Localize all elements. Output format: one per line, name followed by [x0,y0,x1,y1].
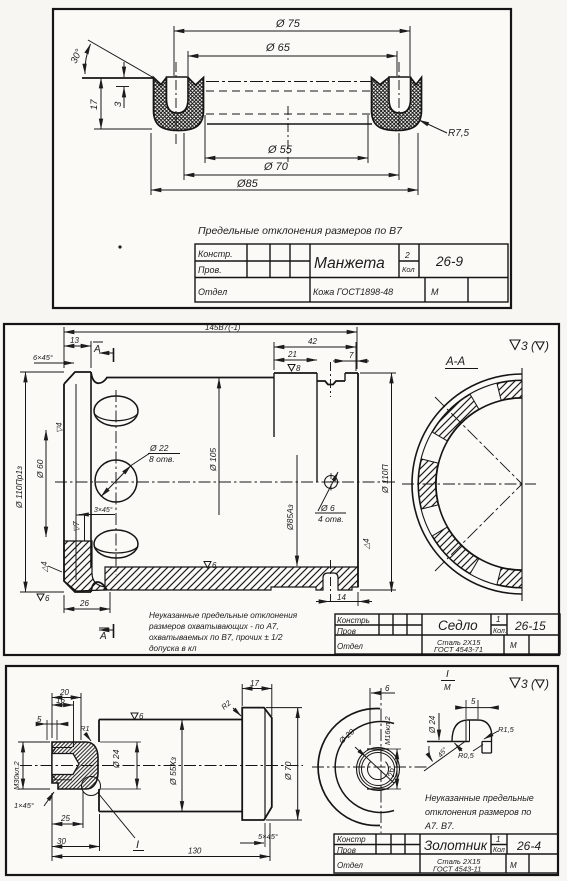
bottom web line between lips [207,123,372,125]
flats chords 26 [367,749,389,789]
svg-text:Ø 110П: Ø 110П [380,463,390,494]
svg-text:17: 17 [250,679,259,688]
seal left inner slot [167,77,189,113]
flange outline [242,708,272,820]
dim 13 [64,345,91,347]
svg-text:А7. В7.: А7. В7. [424,821,455,831]
42 extensions [274,342,356,371]
svg-text:Ø 60: Ø 60 [35,459,45,479]
head section body (hatched) [52,742,98,789]
inner bore dash-dot line [206,81,372,83]
A-A diagonal centerline upper [435,397,522,484]
svg-text:Ø 75: Ø 75 [275,18,301,30]
shaft outline [99,720,242,812]
label R1,5 [484,725,515,739]
svg-text:△4: △4 [362,538,371,550]
145 extension right [356,327,358,369]
thread chamfer marks [52,748,56,780]
svg-text:R1: R1 [80,724,90,733]
svg-text:26: 26 [79,599,89,608]
dim 42 [274,346,356,348]
svg-text:Предельные отклонения размеров: Предельные отклонения размеров по В7 [198,225,403,237]
svg-text:26-9: 26-9 [435,254,464,269]
svg-text:Ø 55: Ø 55 [267,144,293,156]
A-A horizontal centerline [402,483,536,485]
svg-text:А: А [99,631,107,642]
svg-text:14: 14 [337,593,346,602]
dim 5 head [36,715,68,740]
D85 extension lines [151,133,418,195]
section mark A top [93,342,114,362]
dim 30 [52,846,100,848]
dim 5 detail [456,697,498,719]
dim 26 [64,608,110,610]
svg-text:6: 6 [45,594,50,603]
svg-text:Ø 22: Ø 22 [149,443,169,453]
D65 extension lines [188,51,397,76]
svg-text:2: 2 [404,250,410,260]
label A-A [445,356,478,369]
svg-text:4 отв.: 4 отв. [318,514,344,524]
17 extensions [242,684,272,716]
svg-text:1×45°: 1×45° [14,801,34,810]
label I main [133,839,144,851]
dim 16 [52,704,74,706]
dim line D65 [188,55,397,57]
svg-text:R7,5: R7,5 [448,128,470,139]
detail 45 arc arrow [429,746,433,762]
detail leader [98,793,135,838]
stray dot [118,245,121,248]
svg-text:21: 21 [287,350,297,359]
centerline right U [398,62,400,146]
hole ellipse top inner arc [95,414,138,421]
panel 2 frame [4,324,559,655]
dim 25 [52,823,83,825]
title block 1 frame [195,244,508,302]
section A-A inner arc [436,398,522,570]
dim line D75 [174,30,410,32]
svg-text:А-А: А-А [445,356,466,368]
svg-text:25: 25 [60,814,70,823]
part axis centerline p3 [20,765,303,767]
end view outer arc D70 [318,709,380,826]
svg-text:1: 1 [496,615,500,624]
dim D70 [297,708,299,820]
svg-text:I: I [136,839,139,851]
title block 3 texts [337,835,541,874]
end view circle r21.5 [357,748,400,791]
mark tri4 wedge [40,561,62,573]
dim D55X3 [181,720,183,812]
svg-text:Констр.: Констр. [198,249,233,259]
svg-text:Золотник: Золотник [424,838,488,853]
groove centerline top [330,362,332,397]
dim 6 end view [370,684,395,745]
finish marks V3 panel3 [510,677,549,691]
dim D85A3 [296,455,298,566]
detail view base line [427,741,470,743]
bore step lines 3x45 [76,515,85,541]
dim M30kl2 [22,742,24,789]
panel 1 frame [53,9,511,308]
svg-text:17: 17 [89,99,100,110]
svg-text:R1,5: R1,5 [498,725,515,734]
svg-text:М: М [510,861,517,870]
svg-text:размеров охватывающих - по А7: размеров охватывающих - по А7, [148,622,279,631]
A-A diagonal centerline lower [435,484,522,571]
collar edge x317 [316,373,318,482]
svg-text:8: 8 [296,364,301,373]
mark V6 shaft [131,712,144,721]
part axis centerline [55,481,396,483]
main outline top profile [64,372,358,385]
dim line D55 [205,157,368,159]
svg-text:Ø 24: Ø 24 [111,749,121,769]
left face and bottom chamfer [64,384,107,592]
title block 2 texts [337,615,546,654]
svg-text:7: 7 [349,351,354,360]
svg-text:Кол: Кол [493,847,505,854]
surface mark V6 on band [204,561,217,570]
panel 3 frame [6,666,558,875]
section A-A second arc [418,380,522,588]
detail label I/M [441,669,455,692]
dim 26 end view [387,749,401,789]
svg-text:М: М [431,287,439,297]
svg-text:Пров: Пров [337,627,356,636]
svg-text:ГОСТ 4543-71: ГОСТ 4543-71 [434,645,483,654]
svg-text:Ø 24: Ø 24 [428,715,437,734]
D110P extensions [360,373,396,590]
svg-text:Отдел: Отдел [198,287,227,297]
svg-text:допуска в кл: допуска в кл [149,644,197,653]
svg-text:охватываемых по В7, прочих ±: охватываемых по В7, прочих ± 1/2 [149,633,283,642]
hole column centerline [115,390,117,575]
13 extension [64,327,91,368]
svg-text:▽7: ▽7 [72,521,81,532]
svg-text:М: М [444,683,451,692]
seal right inner slot [389,77,411,113]
svg-text:Отдел: Отдел [337,861,363,870]
svg-text:5: 5 [471,697,476,706]
D70 extensions [266,708,302,820]
svg-text:Кол.: Кол. [493,628,507,635]
svg-text:Отдел: Отдел [337,642,363,651]
svg-text:Седло: Седло [438,618,478,633]
title block 2 frame [335,614,560,654]
svg-text:Ø 70: Ø 70 [283,761,293,781]
section hatch: flange wedge bottom-left [64,541,105,591]
leader R7.5 [419,120,447,133]
svg-text:ГОСТ 4543-11: ГОСТ 4543-11 [433,865,481,874]
label 5x45 flange [240,823,278,847]
svg-text:5: 5 [37,715,42,724]
thread crest lines [52,748,72,780]
dim 3 vertical [123,62,125,77]
note panel3 [424,793,534,831]
section hatch: bottom wall band [105,567,358,590]
end view circle r19 [359,750,397,788]
svg-text:Пров: Пров [337,846,356,855]
svg-text:3 (: 3 ( [521,339,537,353]
right face x358 [357,373,359,587]
svg-text:Кожа ГОСТ1898-48: Кожа ГОСТ1898-48 [313,287,393,297]
finish marks V3 panel2 [510,339,549,353]
svg-text:Кол: Кол [402,265,415,274]
svg-text:6: 6 [212,561,217,570]
title block 3 frame [334,834,558,873]
label R2 [220,698,241,716]
end view centerlines [312,766,428,768]
dim line D70 [184,174,399,176]
svg-text:26-4: 26-4 [516,839,541,853]
D110Pr1z extensions [20,372,64,592]
label 1x45 [14,792,54,810]
svg-text:△4: △4 [40,561,49,573]
thread M16 three-quarter arc [368,762,389,780]
section A-A outer arc [412,374,522,594]
svg-text:Ø85: Ø85 [236,178,259,190]
dim line D85 [151,189,418,191]
svg-text:145В7(-1): 145В7(-1) [205,323,241,332]
svg-text:М: М [510,641,517,650]
center vertical dash line [287,106,289,162]
svg-text:Ø 55Хз: Ø 55Хз [168,757,178,786]
label D20 leader [337,727,394,783]
note panel2 [148,611,298,653]
end view arc D55 [335,722,394,813]
svg-text:26: 26 [387,768,396,778]
dim 14 [316,592,372,606]
svg-text:отклонения размеров по: отклонения размеров по [425,807,531,817]
hole ellipse top [94,396,138,426]
svg-text:130: 130 [188,847,202,856]
hole diameter arrow [101,466,131,497]
D55 extension lines [205,115,368,163]
dim 17 flange [242,688,272,690]
end view circle r16.5 [362,753,395,786]
detail tab below [482,742,492,754]
svg-text:3×45°: 3×45° [94,506,113,514]
svg-text:26-15: 26-15 [514,619,546,633]
svg-text:8 отв.: 8 отв. [149,454,175,464]
30 deg arc with arrows [85,44,91,74]
flange chamfer edge line [264,708,266,820]
hole circle middle [95,460,137,502]
svg-text:R0,5: R0,5 [458,751,475,760]
svg-text:Неуказанные предельные: Неуказанные предельные [425,793,534,803]
svg-text:Ø 6: Ø 6 [320,503,335,513]
svg-text:Ø85Аз: Ø85Аз [285,504,295,531]
label R1 [80,724,91,741]
svg-text:I: I [446,669,449,680]
flange right face line [90,372,92,567]
svg-text:Ø 110Пр1з: Ø 110Пр1з [14,466,24,509]
label R0,5 [455,743,484,760]
D24 extensions [100,742,141,789]
svg-text:Пров.: Пров. [198,265,222,275]
chamfer edge vertical line [75,384,77,580]
svg-text:Неуказанные предельные отклоне: Неуказанные предельные отклонения [149,611,298,620]
svg-text:Констр: Констр [337,835,366,844]
svg-text:6×45°: 6×45° [33,353,53,362]
label 3x45 [79,506,115,515]
svg-text:16: 16 [56,696,65,705]
bottom surface line left [94,128,152,130]
seal cross-section right (crosshatched U profile) [372,78,422,131]
groove centerline bottom [330,560,332,601]
dim D60 [45,430,47,537]
title block 1 texts [198,249,464,297]
dim 21 [274,359,317,361]
detail dome inner verticals [466,720,470,742]
dim 20 [52,697,81,699]
D75 extension lines [174,26,410,76]
inner dashed line upper [206,90,372,92]
dim D105 [218,378,220,515]
mark tri6 bottom left [37,594,50,603]
svg-text:▽4: ▽4 [55,422,64,433]
svg-text:Ø 65: Ø 65 [265,42,291,54]
svg-text:6: 6 [385,684,390,693]
svg-text:3 (: 3 ( [521,677,537,691]
svg-text:13: 13 [70,336,79,345]
diameter step line x274 [273,373,275,437]
svg-text:3: 3 [113,101,124,107]
svg-text:Ø 70: Ø 70 [263,161,289,173]
A-A hatched web segments [419,381,522,588]
dim D24 [136,742,138,789]
20/16 extensions [52,693,81,747]
dim D110Pr1z left [25,372,27,592]
chamfer 30 deg construction line [88,40,154,78]
svg-text:М16кл.2: М16кл.2 [383,716,392,745]
hole leader to label [131,453,150,466]
svg-text:30: 30 [57,837,66,846]
inner dashed line lower [206,113,372,115]
section mark A bottom [99,624,114,642]
detail dome outline [452,720,492,742]
detail circle I [82,777,101,796]
detail 45deg line [424,742,465,772]
svg-text:Манжета: Манжета [314,255,385,272]
threaded bore (white) [52,754,79,775]
svg-text:6: 6 [139,712,144,721]
hole ellipse bottom [94,530,138,558]
svg-text:Ø 105: Ø 105 [208,448,218,472]
svg-text:42: 42 [308,337,317,346]
dim D110P right [391,373,393,592]
25/30/130 extensions [52,791,270,861]
6x45 leader [34,362,74,364]
seal cross-section left (crosshatched U profile) [154,78,204,131]
label D22 8 holes [148,443,180,464]
svg-text:М30кл.2: М30кл.2 [12,761,21,790]
svg-text:5×45°: 5×45° [258,832,278,841]
top surface line left [82,77,154,79]
26 extensions [64,592,110,613]
dim 7 [333,351,369,361]
centerline left U [175,62,177,146]
D70 extension lines [184,133,399,180]
section A-A cut edge line [521,368,523,601]
dim 17 vertical [100,78,102,129]
svg-text:Констрь: Констрь [337,616,370,625]
dim D24 detail [428,713,439,740]
surface mark V8 [288,364,301,373]
small hole D6 [315,472,346,524]
svg-text:1: 1 [496,835,500,844]
collar edge x345 [344,373,346,381]
M30 extensions [18,742,50,789]
dim 130 [52,856,270,858]
hole ellipse bottom inner arc [95,547,138,553]
dim 145B7 line [64,331,357,333]
